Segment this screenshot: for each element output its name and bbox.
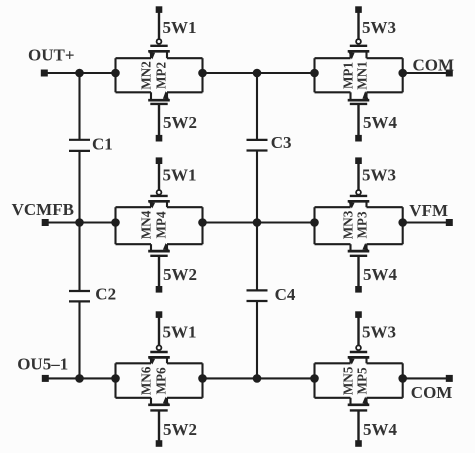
wire row3 left rail to left TG <box>80 377 116 379</box>
junction row3 right TG right <box>398 374 407 383</box>
wire gate of top device to port 5W3 <box>357 161 359 190</box>
wire row1 left port to left rail <box>44 72 79 74</box>
svg-text:VCMFB: VCMFB <box>12 200 74 219</box>
capacitor C1 <box>69 140 90 151</box>
transistor MP2 (bottom device, control 5W2) <box>148 91 170 104</box>
wire gate of top device to port 5W1 <box>158 10 160 40</box>
port 5W2 (bottom) <box>156 135 163 142</box>
svg-text:C4: C4 <box>275 285 296 304</box>
svg-text:MN1: MN1 <box>355 61 370 90</box>
svg-text:5W3: 5W3 <box>362 166 396 185</box>
wire gate of bottom device to port 5W4 <box>357 104 359 138</box>
svg-text:COM: COM <box>411 383 453 402</box>
svg-text:MN4: MN4 <box>139 210 154 239</box>
junction row3 left TG left <box>111 374 120 383</box>
wire left rail C1 to VCMFB node <box>78 151 80 223</box>
wire gate of bottom device to port 5W2 <box>158 410 160 443</box>
svg-text:5W4: 5W4 <box>363 265 398 284</box>
svg-text:OU5–1: OU5–1 <box>17 355 68 374</box>
port 5W4 (bottom) <box>355 135 362 142</box>
wire row2 middle rail to right TG <box>257 221 315 223</box>
port 5W1 (top) <box>156 157 163 164</box>
wire row2 right TG to right port <box>403 221 450 223</box>
port 5W3 (top) <box>355 311 362 318</box>
wire middle rail row1 node to C3 <box>256 73 258 140</box>
junction row3 middle rail <box>253 374 262 383</box>
junction row3 left TG right <box>198 374 207 383</box>
svg-text:MP6: MP6 <box>154 367 169 395</box>
wire gate of bottom device to port 5W4 <box>357 256 359 289</box>
transistor MP6 (bottom device, control 5W2) <box>148 397 170 411</box>
svg-text:MN5: MN5 <box>341 366 356 395</box>
svg-text:MP3: MP3 <box>355 211 370 239</box>
svg-text:VFM: VFM <box>409 201 448 220</box>
port 5W3 (top) <box>355 157 362 164</box>
port 5W1 (top) <box>156 6 163 13</box>
port VFM <box>446 219 453 226</box>
junction row1 left rail <box>75 69 84 78</box>
port OUT+ <box>41 70 48 77</box>
wire left rail VCMFB node to C2 <box>78 223 80 292</box>
svg-text:5W3: 5W3 <box>362 18 396 37</box>
transmission gate frame MN2/MP2 <box>116 58 203 92</box>
svg-text:C2: C2 <box>95 285 116 304</box>
transistor MP4 (bottom device, control 5W2) <box>148 243 170 256</box>
svg-text:C1: C1 <box>92 135 113 154</box>
transmission gate frame MP1/MN1 <box>315 58 403 92</box>
junction row2 left TG right <box>198 218 207 227</box>
svg-text:MN3: MN3 <box>341 210 356 239</box>
svg-text:5W4: 5W4 <box>363 113 398 132</box>
junction row1 middle rail <box>253 69 262 78</box>
svg-text:MP1: MP1 <box>341 62 356 89</box>
wire row1 middle rail to right TG <box>257 72 315 74</box>
junction row2 right TG left <box>310 218 319 227</box>
svg-text:MN6: MN6 <box>139 366 154 395</box>
wire middle rail C3 to row2 node <box>256 151 258 223</box>
junction row1 right TG right <box>398 69 407 78</box>
wire row3 middle rail to right TG <box>257 377 315 379</box>
wire row3 left TG to middle rail <box>203 377 258 379</box>
transmission gate frame MN4/MP4 <box>116 207 203 244</box>
transistor MN3 (top device, bubble gate, control 5W3) <box>348 190 370 208</box>
svg-text:5W1: 5W1 <box>163 18 197 37</box>
svg-text:COM: COM <box>413 56 455 75</box>
junction row1 right TG left <box>310 69 319 78</box>
wire gate of top device to port 5W3 <box>357 10 359 40</box>
svg-text:C3: C3 <box>271 133 292 152</box>
svg-text:MN2: MN2 <box>139 61 154 90</box>
transistor MP3 (bottom device, control 5W4) <box>348 243 370 256</box>
wire row1 right TG to right port <box>403 72 450 74</box>
wire left rail OUT+ node to C1 <box>78 73 80 140</box>
port 5W2 (bottom) <box>156 286 163 293</box>
svg-text:MP2: MP2 <box>154 62 169 90</box>
transmission gate frame MN6/MP6 <box>116 363 203 398</box>
junction row3 left rail <box>75 374 84 383</box>
junction row2 middle rail <box>253 218 262 227</box>
svg-text:5W3: 5W3 <box>362 323 396 342</box>
port 5W2 (bottom) <box>156 440 163 447</box>
port 5W4 (bottom) <box>355 440 362 447</box>
wire row1 left rail to left TG <box>80 72 116 74</box>
svg-text:5W2: 5W2 <box>163 113 197 132</box>
junction row2 left TG left <box>111 218 120 227</box>
port 5W4 (bottom) <box>355 286 362 293</box>
transistor MN6 (top device, bubble gate, control 5W1) <box>148 345 170 364</box>
wire gate of top device to port 5W1 <box>158 315 160 346</box>
wire row3 right TG to right port <box>403 377 450 379</box>
transistor MN4 (top device, bubble gate, control 5W1) <box>148 190 170 208</box>
junction row3 right TG left <box>310 374 319 383</box>
capacitor C2 <box>69 291 90 301</box>
port 5W1 (top) <box>156 311 163 318</box>
wire row3 left port to left rail <box>44 377 79 379</box>
svg-text:MP5: MP5 <box>355 367 370 395</box>
wire row2 left rail to left TG <box>80 221 116 223</box>
wire middle rail row2 node to C4 <box>256 223 258 291</box>
wire gate of top device to port 5W1 <box>158 161 160 190</box>
transistor MN1 (bottom device, control 5W4) <box>348 91 370 104</box>
port OU5-1 <box>42 375 49 382</box>
svg-text:5W1: 5W1 <box>163 166 197 185</box>
junction row1 left TG left <box>111 69 120 78</box>
capacitor C4 <box>247 290 268 301</box>
port VCMFB <box>42 219 49 226</box>
wire gate of bottom device to port 5W4 <box>357 410 359 443</box>
wire gate of bottom device to port 5W2 <box>158 104 160 138</box>
svg-text:5W4: 5W4 <box>363 420 398 439</box>
wire left rail C2 to OU5-1 node <box>78 301 80 378</box>
svg-text:5W2: 5W2 <box>163 265 197 284</box>
wire row2 left TG to middle rail <box>203 221 258 223</box>
wire row2 left port to left rail <box>44 221 79 223</box>
transistor MP5 (bottom device, control 5W4) <box>348 397 370 411</box>
svg-text:5W2: 5W2 <box>163 420 197 439</box>
port COM (row1) <box>446 70 453 77</box>
port 5W3 (top) <box>355 6 362 13</box>
wire row1 left TG to middle rail <box>203 72 258 74</box>
svg-text:5W1: 5W1 <box>163 323 197 342</box>
svg-text:OUT+: OUT+ <box>28 46 75 65</box>
junction row1 left TG right <box>198 69 207 78</box>
wire gate of bottom device to port 5W2 <box>158 256 160 289</box>
svg-text:MP4: MP4 <box>154 211 169 239</box>
port COM (row3) <box>446 375 453 382</box>
wire gate of top device to port 5W3 <box>357 315 359 346</box>
transistor MN2 (top device, bubble gate, control 5W1) <box>148 39 170 59</box>
junction row2 right TG right <box>398 218 407 227</box>
wire middle rail C4 to row3 node <box>256 301 258 378</box>
transistor MN5 (top device, bubble gate, control 5W3) <box>348 345 370 364</box>
transmission gate frame MN5/MP5 <box>315 363 403 398</box>
capacitor C3 <box>247 140 268 151</box>
transistor MP1 (top device, bubble gate, control 5W3) <box>348 39 370 59</box>
junction row2 left rail <box>75 218 84 227</box>
transmission gate frame MN3/MP3 <box>315 207 403 244</box>
